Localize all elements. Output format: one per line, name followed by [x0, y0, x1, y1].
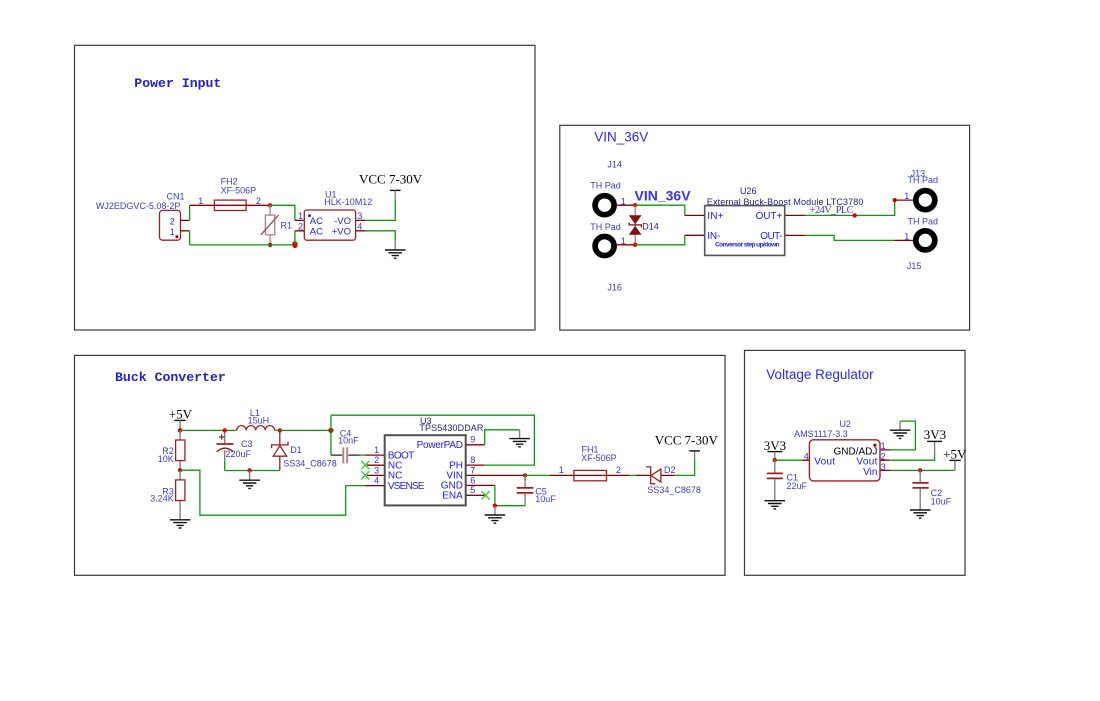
svg-text:Buck Converter: Buck Converter: [115, 370, 226, 385]
svg-text:3V3: 3V3: [924, 427, 946, 442]
svg-text:1: 1: [621, 196, 626, 206]
svg-text:Power Input: Power Input: [134, 76, 221, 91]
wire +5V rail: [180, 429, 237, 431]
ground under U1: [394, 240, 396, 250]
wire bottom AC: [190, 244, 295, 246]
frame Buck Converter: [75, 355, 726, 575]
svg-text:1: 1: [904, 191, 909, 201]
junction C4 node: [328, 428, 333, 433]
svg-text:Vin: Vin: [863, 467, 877, 478]
ground top: [899, 421, 901, 430]
regulator U2: [794, 419, 890, 481]
svg-text:+5V: +5V: [943, 447, 967, 462]
svg-text:2: 2: [881, 452, 886, 462]
svg-text:3V3: 3V3: [764, 438, 786, 453]
wire to U1 pin2: [294, 231, 296, 245]
svg-text:WJ2EDGVC-5.08-2P: WJ2EDGVC-5.08-2P: [96, 201, 181, 211]
svg-text:5: 5: [470, 485, 475, 495]
pad J15: [894, 216, 938, 271]
ground under C1: [765, 501, 786, 509]
wire L1 to C4 node: [275, 429, 331, 431]
junction top of R1: [268, 203, 272, 207]
wire pin3 to +5V: [891, 469, 955, 471]
svg-text:2: 2: [170, 217, 175, 227]
svg-text:4: 4: [374, 476, 379, 486]
svg-text:OUT-: OUT-: [760, 231, 782, 242]
svg-text:10nF: 10nF: [338, 435, 359, 445]
svg-text:PowerPAD: PowerPAD: [417, 440, 463, 451]
fuse FH2: [190, 176, 271, 210]
junction VIN node: [523, 473, 527, 477]
svg-text:9: 9: [470, 435, 475, 445]
wire pin2 to 3V3: [890, 454, 935, 460]
svg-text:Vout: Vout: [814, 457, 835, 468]
junction VIN top: [633, 203, 637, 207]
svg-text:AMS1117-3.3: AMS1117-3.3: [794, 429, 848, 439]
svg-text:1: 1: [198, 196, 203, 206]
ground pin6: [494, 506, 496, 515]
svg-text:OUT+: OUT+: [756, 211, 783, 222]
wire VSENSE feedback: [180, 470, 365, 515]
svg-text:C3: C3: [241, 439, 253, 449]
frame Power Input: [75, 45, 536, 330]
wire CN1 pin1 down: [189, 231, 191, 245]
svg-text:VCC 7-30V: VCC 7-30V: [655, 433, 719, 448]
svg-text:15uH: 15uH: [248, 415, 270, 425]
svg-text:10uF: 10uF: [535, 494, 556, 504]
module U26: [685, 186, 864, 255]
svg-text:1: 1: [881, 441, 886, 451]
svg-text:+24V_PLC: +24V_PLC: [810, 205, 854, 216]
wire to U26 IN+: [635, 205, 685, 215]
svg-text:ENA: ENA: [442, 490, 463, 501]
power flag VCC 7-30V buck: [655, 433, 719, 460]
wire C4 node vertical: [330, 415, 332, 455]
junction D1 tap: [278, 428, 282, 432]
svg-text:TPS5430DDAR: TPS5430DDAR: [419, 423, 484, 433]
module U1: [295, 190, 372, 241]
diode D1: [272, 430, 337, 470]
svg-text:2: 2: [256, 196, 261, 206]
svg-text:IN-: IN-: [707, 231, 720, 242]
svg-text:10K: 10K: [158, 454, 174, 464]
IC U3: [361, 416, 523, 506]
junction gnd node: [493, 504, 497, 508]
wire VIN to FH1: [525, 474, 549, 476]
wire OUT+ to J13: [805, 200, 895, 215]
junction bottom of R1: [268, 243, 272, 247]
svg-text:3: 3: [374, 465, 379, 475]
svg-text:1: 1: [621, 236, 626, 246]
svg-text:2: 2: [616, 465, 621, 475]
svg-text:1: 1: [298, 211, 303, 221]
inductor L1: [237, 408, 275, 430]
svg-text:VIN_36V: VIN_36V: [594, 130, 648, 145]
junction VIN bottom: [633, 243, 637, 247]
svg-text:R1: R1: [281, 221, 293, 231]
wire C3 down: [224, 460, 226, 470]
capacitor C4: [331, 428, 360, 463]
frame VIN_36V: [560, 125, 970, 330]
capacitor C1: [767, 460, 808, 500]
svg-text:2: 2: [298, 222, 303, 232]
svg-text:10uF: 10uF: [931, 496, 952, 506]
svg-text:XF-506P: XF-506P: [221, 185, 257, 195]
svg-text:Voltage Regulator: Voltage Regulator: [766, 367, 874, 382]
TVS diode D14: [629, 205, 659, 245]
junction 3V3 node: [773, 458, 777, 462]
svg-text:TH Pad: TH Pad: [908, 216, 939, 226]
wire FH1 to D2: [629, 474, 636, 476]
svg-text:D14: D14: [642, 221, 659, 231]
svg-text:+VO: +VO: [332, 227, 351, 238]
svg-text:4: 4: [804, 452, 809, 462]
svg-text:D1: D1: [290, 445, 302, 455]
junction +24V_PLC: [853, 213, 857, 217]
wire U1 pin3 to VCC: [366, 201, 396, 221]
svg-text:SS34_C8678: SS34_C8678: [647, 485, 701, 495]
junction C2 tap: [918, 468, 922, 472]
power flag VCC 7-30V: [359, 171, 423, 200]
svg-text:Conversor step up/down: Conversor step up/down: [715, 241, 780, 248]
power flag +5V right: [943, 447, 967, 471]
svg-text:4: 4: [357, 222, 362, 232]
wire C4 to BOOT: [360, 454, 365, 456]
junction J13: [893, 198, 897, 202]
pad J14: [590, 159, 635, 214]
svg-text:VIN_36V: VIN_36V: [635, 187, 692, 203]
svg-text:1: 1: [559, 465, 564, 475]
ground under C3: [249, 471, 251, 481]
wire to U1 pin1: [270, 205, 295, 220]
frame Voltage Regulator: [745, 350, 966, 575]
power flag 3V3 left: [764, 438, 786, 460]
capacitor C2: [913, 470, 952, 509]
fuse FH1: [550, 444, 630, 481]
svg-text:2: 2: [374, 455, 379, 465]
capacitor C3: [216, 430, 252, 460]
capacitor C5: [517, 475, 557, 505]
svg-text:6: 6: [470, 475, 475, 485]
ground under R3: [170, 520, 191, 528]
wire CN1 pin2 up: [189, 205, 191, 220]
wire D2 to VCC: [675, 460, 695, 476]
svg-text:TH Pad: TH Pad: [908, 175, 939, 185]
svg-text:U26: U26: [740, 186, 757, 196]
pad J16: [590, 222, 635, 293]
svg-text:1: 1: [170, 227, 175, 237]
svg-text:TH Pad: TH Pad: [590, 180, 621, 190]
power flag +5V: [169, 406, 193, 430]
connector CN1: [96, 192, 190, 241]
resistor R2: [158, 430, 185, 470]
svg-text:SS34_C8678: SS34_C8678: [283, 459, 337, 469]
wire U1 pin4 to ground: [366, 231, 396, 240]
svg-text:+5V: +5V: [169, 406, 193, 421]
svg-text:D2: D2: [664, 465, 676, 475]
svg-text:AC: AC: [310, 216, 323, 227]
ground under C2: [910, 510, 931, 518]
resistor R3: [150, 470, 185, 520]
wire top rail to PH: [331, 415, 535, 465]
svg-text:-VO: -VO: [334, 216, 351, 227]
ground pin9: [519, 430, 521, 439]
svg-text:IN+: IN+: [707, 211, 723, 222]
wire bottom rail C3-D1: [225, 470, 280, 472]
svg-text:J14: J14: [607, 159, 622, 169]
power flag 3V3 right: [924, 427, 946, 455]
svg-text:J15: J15: [907, 261, 922, 271]
junction gnd tap: [247, 468, 251, 472]
svg-text:220uF: 220uF: [226, 449, 252, 459]
svg-text:7: 7: [470, 465, 475, 475]
diode D2: [636, 465, 701, 495]
svg-text:U2: U2: [839, 419, 851, 429]
svg-text:3.24K: 3.24K: [150, 494, 174, 504]
junction +5V node: [178, 428, 183, 433]
svg-text:AC: AC: [310, 227, 323, 238]
svg-text:TH Pad: TH Pad: [590, 222, 621, 232]
varistor R1: [261, 205, 292, 245]
svg-text:3: 3: [881, 462, 886, 472]
pad J13: [895, 169, 938, 210]
svg-text:J16: J16: [607, 283, 622, 293]
svg-text:3: 3: [357, 211, 362, 221]
svg-text:22uF: 22uF: [787, 481, 808, 491]
junction C3 tap: [223, 428, 227, 432]
svg-text:1: 1: [374, 445, 379, 455]
wire OUT- to J15: [805, 235, 894, 240]
svg-text:HLK-10M12: HLK-10M12: [324, 197, 372, 207]
svg-text:VCC 7-30V: VCC 7-30V: [359, 171, 423, 186]
svg-text:VSENSE: VSENSE: [388, 481, 425, 492]
wire pin1 to ground: [891, 421, 916, 450]
junction R2/R3: [178, 468, 182, 472]
wire pin9 to ground: [485, 430, 520, 445]
svg-text:XF-506P: XF-506P: [581, 453, 617, 463]
wire pin6 to ground: [495, 485, 525, 505]
svg-text:1: 1: [904, 231, 909, 241]
svg-text:8: 8: [470, 455, 475, 465]
svg-text:CN1: CN1: [167, 192, 185, 202]
wire 3V3 to pin4: [775, 459, 802, 461]
junction big: [292, 241, 297, 248]
wire to U26 IN-: [635, 235, 685, 245]
